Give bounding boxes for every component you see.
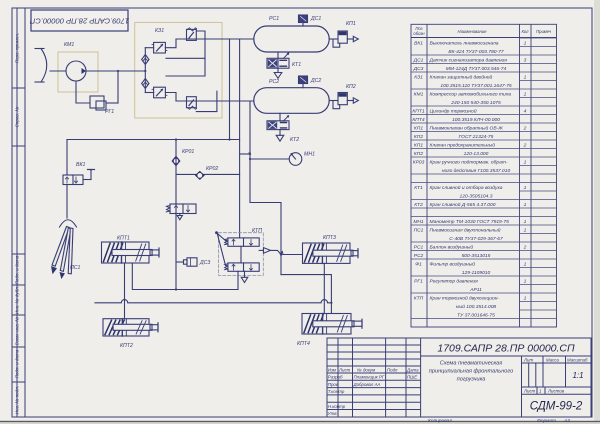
svg-text:Пневмоклапан обратный ОВ-Ж: Пневмоклапан обратный ОВ-Ж bbox=[430, 124, 504, 131]
svg-text:КПТ3: КПТ3 bbox=[323, 235, 336, 241]
svg-text:Фильтр воздушный: Фильтр воздушный bbox=[430, 260, 476, 267]
svg-text:ДС1: ДС1 bbox=[413, 57, 424, 63]
KTP intersection link bbox=[240, 246, 242, 263]
front brake bus (upper) bbox=[132, 263, 238, 290]
svg-text:КТП: КТП bbox=[414, 295, 424, 301]
svg-text:1: 1 bbox=[524, 278, 527, 284]
svg-text:Разраб: Разраб bbox=[328, 375, 343, 380]
svg-text:Справ. №: Справ. № bbox=[15, 107, 20, 128]
rail RC from L2 bbox=[250, 101, 281, 275]
svg-text:Масса: Масса bbox=[546, 358, 560, 363]
svg-text:КТП: КТП bbox=[252, 228, 262, 234]
svg-text:КЗ1: КЗ1 bbox=[155, 28, 164, 34]
svg-text:МН1: МН1 bbox=[413, 219, 424, 225]
svg-text:ТУ 37.001646-75: ТУ 37.001646-75 bbox=[457, 312, 495, 318]
relief valve R1 bbox=[166, 28, 205, 76]
svg-text:500-3513015: 500-3513015 bbox=[462, 253, 491, 259]
wire KPT1 to KPT2 bbox=[124, 263, 126, 319]
svg-text:Пневмосигнал двухтональный: Пневмосигнал двухтональный bbox=[430, 226, 501, 233]
check valve diamond lower bbox=[142, 79, 149, 89]
header line H1 bbox=[67, 139, 240, 141]
svg-text:Пров: Пров bbox=[328, 382, 339, 387]
safety valve KP1 bbox=[329, 31, 358, 47]
svg-text:РС1: РС1 bbox=[269, 16, 279, 22]
svg-text:обозн: обозн bbox=[413, 31, 425, 36]
KTP top outlet with flow arrow bbox=[259, 248, 281, 255]
KTP top section bbox=[224, 238, 259, 246]
svg-text:120-13.000: 120-13.000 bbox=[464, 151, 489, 157]
svg-text:Подп: Подп bbox=[387, 367, 398, 372]
svg-text:КП1: КП1 bbox=[346, 21, 356, 27]
svg-text:Добровол АА: Добровол АА bbox=[353, 382, 381, 387]
svg-text:КТ1: КТ1 bbox=[414, 185, 423, 191]
compressor KM1 bbox=[66, 61, 86, 81]
svg-text:КЗ1: КЗ1 bbox=[414, 74, 423, 80]
svg-text:Лист: Лист bbox=[523, 389, 536, 394]
svg-text:КПТ4: КПТ4 bbox=[297, 341, 310, 347]
safety valve KP2 bbox=[329, 93, 358, 109]
designation cell bottom bbox=[421, 355, 591, 357]
svg-text:КПТ4: КПТ4 bbox=[412, 117, 424, 123]
svg-text:Цилиндр тормозной: Цилиндр тормозной bbox=[430, 107, 477, 114]
svg-text:КП2: КП2 bbox=[346, 84, 356, 90]
brake chamber KPT4 bbox=[302, 314, 362, 335]
svg-text:Утв: Утв bbox=[328, 411, 337, 416]
svg-text:Формат: Формат bbox=[537, 418, 556, 424]
svg-text:100.3515.110 ТУ37.001.1647-75: 100.3515.110 ТУ37.001.1647-75 bbox=[440, 83, 512, 89]
svg-text:Лит: Лит bbox=[523, 358, 533, 363]
svg-text:ного действия Г100.3537.010: ного действия Г100.3537.010 bbox=[442, 167, 511, 174]
check valve KR02 bbox=[176, 171, 240, 180]
svg-text:С-40В ТУ37-029-367-67: С-40В ТУ37-029-367-67 bbox=[449, 236, 503, 242]
hand brake valve bbox=[166, 204, 196, 220]
svg-text:КР01: КР01 bbox=[182, 149, 194, 155]
left feed rail to VK1 bbox=[66, 140, 68, 176]
svg-text:1: 1 bbox=[524, 74, 527, 80]
KTP exhaust bbox=[241, 271, 248, 282]
svg-text:Взам. инв. №: Взам. инв. № bbox=[15, 317, 20, 345]
svg-text:ПС1: ПС1 bbox=[70, 265, 81, 271]
svg-text:ВК1: ВК1 bbox=[76, 162, 86, 168]
svg-text:Примеч: Примеч bbox=[536, 29, 552, 34]
sensor DS1 bbox=[299, 15, 308, 26]
valve V1 bbox=[145, 42, 167, 53]
svg-text:Копировал: Копировал bbox=[428, 418, 452, 424]
rail RB from L1 to KTP bbox=[239, 39, 241, 238]
svg-text:КПТ1: КПТ1 bbox=[412, 108, 424, 114]
svg-text:КП1: КП1 bbox=[414, 125, 423, 131]
svg-text:1: 1 bbox=[524, 261, 527, 267]
table rows bbox=[411, 38, 557, 319]
engine drive fork bbox=[35, 49, 66, 83]
svg-text:Клапан защитный двойной: Клапан защитный двойной bbox=[430, 73, 493, 80]
svg-text:КПТ2: КПТ2 bbox=[120, 343, 133, 349]
manometer line bbox=[250, 158, 289, 160]
svg-text:1: 1 bbox=[524, 159, 527, 165]
svg-text:1: 1 bbox=[524, 91, 527, 97]
svg-text:Т.контр: Т.контр bbox=[328, 389, 345, 394]
svg-text:А3: А3 bbox=[563, 418, 570, 424]
svg-text:ПС1: ПС1 bbox=[414, 227, 424, 233]
under-frame texts bbox=[428, 418, 570, 424]
svg-text:Кран сливной и отбора воздуха: Кран сливной и отбора воздуха bbox=[430, 184, 503, 191]
wire compressor to KZ1 bbox=[86, 70, 145, 72]
svg-text:Манометр ТМ-1030 ГОСТ 7919-75: Манометр ТМ-1030 ГОСТ 7919-75 bbox=[430, 219, 510, 225]
svg-text:240-150 540-350.1075: 240-150 540-350.1075 bbox=[450, 100, 501, 106]
svg-text:2: 2 bbox=[523, 142, 527, 148]
svg-text:ГОСТ 21324-75: ГОСТ 21324-75 bbox=[459, 134, 494, 140]
check valve KR01 bbox=[172, 156, 181, 167]
svg-text:4: 4 bbox=[524, 108, 527, 114]
svg-text:Изм: Изм bbox=[328, 367, 336, 372]
svg-text:КТ1: КТ1 bbox=[292, 62, 301, 68]
svg-text:РС2: РС2 bbox=[269, 79, 279, 85]
line L1 to RS1 bbox=[176, 38, 254, 40]
table header bbox=[413, 26, 551, 36]
svg-text:Регулятор давления: Регулятор давления bbox=[430, 278, 479, 284]
svg-text:Масштаб: Масштаб bbox=[567, 358, 588, 363]
svg-text:ДС3: ДС3 bbox=[413, 66, 424, 72]
svg-text:Баллон воздушный: Баллон воздушный bbox=[430, 243, 474, 250]
svg-text:Н.контр: Н.контр bbox=[328, 404, 346, 409]
relief valve R2 bbox=[187, 91, 217, 111]
svg-text:РС2: РС2 bbox=[414, 253, 424, 259]
svg-text:2: 2 bbox=[523, 125, 527, 131]
svg-text:Инв. № дубл.: Инв. № дубл. bbox=[15, 286, 20, 314]
top narrow rows bbox=[327, 344, 421, 346]
horn PS1 bbox=[51, 220, 77, 279]
brake chamber KPT1 bbox=[102, 242, 160, 263]
svg-text:КП2: КП2 bbox=[414, 134, 423, 140]
svg-text:ный 100.3514.008: ный 100.3514.008 bbox=[456, 303, 497, 310]
svg-text:КПТ1: КПТ1 bbox=[117, 236, 130, 242]
svg-text:КМ1: КМ1 bbox=[64, 42, 74, 48]
svg-text:КМ1: КМ1 bbox=[414, 91, 424, 97]
svg-text:1: 1 bbox=[524, 295, 527, 301]
svg-text:Инв. № подл.: Инв. № подл. bbox=[15, 386, 20, 415]
svg-text:Подп. и дата: Подп. и дата bbox=[15, 349, 20, 378]
svg-text:ВК1: ВК1 bbox=[414, 40, 423, 46]
svg-text:ММ-124Д ТУ37.003.546-74: ММ-124Д ТУ37.003.546-74 bbox=[446, 66, 507, 72]
KM1 highlight box bbox=[58, 52, 98, 92]
brake chamber KPT3 bbox=[303, 243, 359, 263]
KTP bottom section bbox=[224, 263, 259, 271]
KTP lever bbox=[215, 231, 226, 265]
left staff section verticals bbox=[337, 338, 339, 417]
top-left inverted stamp bbox=[29, 10, 129, 31]
regulator RG1 bbox=[90, 70, 119, 110]
svg-text:КР03: КР03 bbox=[413, 159, 425, 165]
valve V2 bbox=[145, 87, 167, 98]
svg-text:АР11: АР11 bbox=[469, 287, 482, 293]
reservoir RS2 bbox=[254, 88, 329, 114]
svg-text:ПШЕ: ПШЕ bbox=[407, 375, 417, 380]
svg-text:1: 1 bbox=[524, 202, 527, 208]
svg-text:Ф1: Ф1 bbox=[415, 261, 422, 267]
svg-text:МН1: МН1 bbox=[304, 152, 315, 158]
svg-text:Кол: Кол bbox=[521, 29, 529, 34]
wire VK1 to horn bbox=[66, 185, 68, 219]
svg-text:РГ1: РГ1 bbox=[105, 109, 114, 115]
svg-text:Наименование: Наименование bbox=[458, 29, 488, 34]
name/lit divider bbox=[521, 356, 523, 417]
rail 176 down bbox=[175, 140, 177, 290]
svg-text:2: 2 bbox=[523, 244, 527, 250]
wire RG1 bypass bbox=[76, 81, 90, 103]
KTP bottom outlet to front bus bbox=[237, 271, 239, 289]
line L2 to RS2 bbox=[176, 100, 254, 102]
svg-text:Листов: Листов bbox=[547, 389, 565, 394]
title block texts bbox=[328, 358, 588, 417]
svg-text:120-3505104.3: 120-3505104.3 bbox=[460, 193, 493, 199]
svg-text:РС1: РС1 bbox=[414, 244, 424, 250]
svg-text:3: 3 bbox=[524, 57, 527, 63]
drain valve KT1 bbox=[267, 52, 289, 78]
stub H2 bbox=[240, 153, 250, 155]
svg-text:СДМ-99-2: СДМ-99-2 bbox=[530, 401, 583, 413]
svg-text:Дата: Дата bbox=[406, 367, 419, 372]
brake chamber KPT2 bbox=[103, 319, 158, 336]
svg-text:ДС1: ДС1 bbox=[310, 16, 321, 22]
svg-text:Кран ручного подтормаж. обрат-: Кран ручного подтормаж. обрат- bbox=[430, 159, 508, 165]
svg-text:Клапан предохранительный: Клапан предохранительный bbox=[430, 141, 496, 148]
svg-text:ДС2: ДС2 bbox=[310, 78, 321, 84]
svg-text:1: 1 bbox=[524, 227, 527, 233]
svg-text:Кран сливной Д-565 4.37.000: Кран сливной Д-565 4.37.000 bbox=[430, 201, 496, 208]
svg-text:погрузчика: погрузчика bbox=[457, 377, 486, 383]
pressure switch DS3 bbox=[176, 258, 197, 266]
svg-text:КР02: КР02 bbox=[206, 166, 218, 172]
wire KPT3 to KPT4 bbox=[323, 263, 325, 313]
svg-text:1709.САПР 28.ПР 00000.СП: 1709.САПР 28.ПР 00000.СП bbox=[29, 17, 129, 26]
svg-text:№ докум: № докум bbox=[357, 367, 375, 372]
svg-text:Схема пневматическая: Схема пневматическая bbox=[440, 361, 503, 367]
horn switch VK1 bbox=[63, 169, 95, 185]
svg-text:КТ2: КТ2 bbox=[290, 137, 299, 143]
svg-text:1: 1 bbox=[524, 185, 527, 191]
left column cell dividers bbox=[12, 87, 25, 89]
svg-text:Датчик сигнализатора давления: Датчик сигнализатора давления bbox=[429, 57, 508, 63]
svg-text:принципиальная фронтального: принципиальная фронтального bbox=[429, 369, 513, 375]
V1 output to line L1 bbox=[165, 39, 176, 48]
schematic labels bbox=[64, 16, 356, 349]
svg-text:Подп. и дата: Подп. и дата bbox=[15, 255, 20, 284]
svg-text:1: 1 bbox=[524, 219, 527, 225]
name cell text bbox=[429, 361, 513, 383]
svg-text:Лист: Лист bbox=[338, 367, 351, 372]
sensor DS2 bbox=[299, 76, 308, 88]
left margin vertical texts bbox=[15, 33, 20, 415]
lit header row bbox=[522, 362, 592, 364]
svg-text:Кран тормозной двухсекцион-: Кран тормозной двухсекцион- bbox=[430, 294, 500, 301]
junction node bbox=[280, 253, 282, 255]
rear brake bus (lower) with hops bbox=[95, 300, 331, 303]
svg-text:1: 1 bbox=[524, 40, 527, 46]
svg-text:РГ1: РГ1 bbox=[414, 278, 423, 284]
svg-text:Выключатель пневмосигнала: Выключатель пневмосигнала bbox=[430, 40, 499, 46]
drain valve KT2 bbox=[267, 113, 289, 141]
svg-text:КТ2: КТ2 bbox=[414, 202, 423, 208]
svg-text:1709.САПР 28.ПР 00000.СП: 1709.САПР 28.ПР 00000.СП bbox=[437, 343, 575, 355]
KTP dashed box bbox=[219, 233, 264, 276]
wire junction down-right bbox=[281, 275, 331, 314]
svg-text:Перв. примен.: Перв. примен. bbox=[15, 33, 20, 64]
check valve diamond upper bbox=[142, 55, 149, 65]
manometer MN1 bbox=[289, 153, 302, 166]
svg-text:129-1109010: 129-1109010 bbox=[462, 270, 491, 276]
KZ1 internal rail bbox=[144, 48, 146, 93]
KZ1 highlight box bbox=[135, 22, 222, 118]
svg-text:КП2: КП2 bbox=[414, 151, 423, 157]
reservoir RS1 bbox=[254, 26, 329, 52]
V2 output to line L2 bbox=[165, 93, 176, 102]
svg-text:ВК-424 ТУ37-003.780-77: ВК-424 ТУ37-003.780-77 bbox=[448, 49, 504, 55]
svg-text:100.3519.КЛЧ-00.000: 100.3519.КЛЧ-00.000 bbox=[452, 117, 500, 123]
svg-text:КП1: КП1 bbox=[414, 142, 423, 148]
svg-text:Пламенщик РГ: Пламенщик РГ bbox=[354, 375, 385, 380]
svg-text:ДС3: ДС3 bbox=[199, 260, 210, 266]
wire junction to KPT3 bbox=[281, 254, 303, 256]
rail RA from L1 bbox=[229, 39, 231, 140]
svg-text:1:1: 1:1 bbox=[572, 371, 583, 380]
svg-text:Компрессор автомобильного типа: Компрессор автомобильного типа bbox=[430, 91, 512, 97]
